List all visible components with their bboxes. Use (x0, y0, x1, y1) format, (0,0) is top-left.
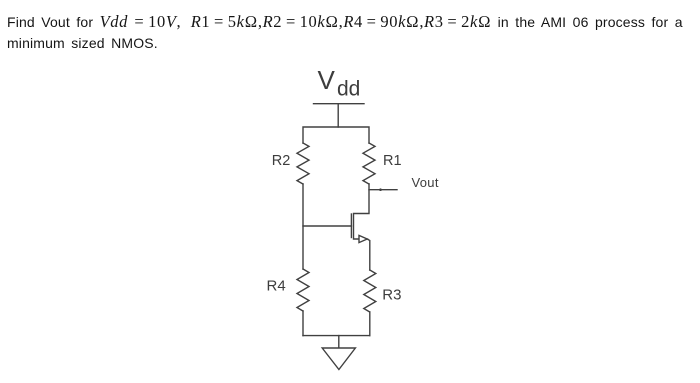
svg-text:R4: R4 (267, 278, 286, 295)
svg-text:R1: R1 (383, 153, 402, 169)
svg-text:Vout: Vout (412, 175, 439, 190)
svg-text:R3: R3 (382, 286, 401, 303)
svg-text:V: V (318, 65, 336, 95)
svg-text:dd: dd (337, 78, 360, 101)
svg-text:R2: R2 (272, 153, 291, 169)
